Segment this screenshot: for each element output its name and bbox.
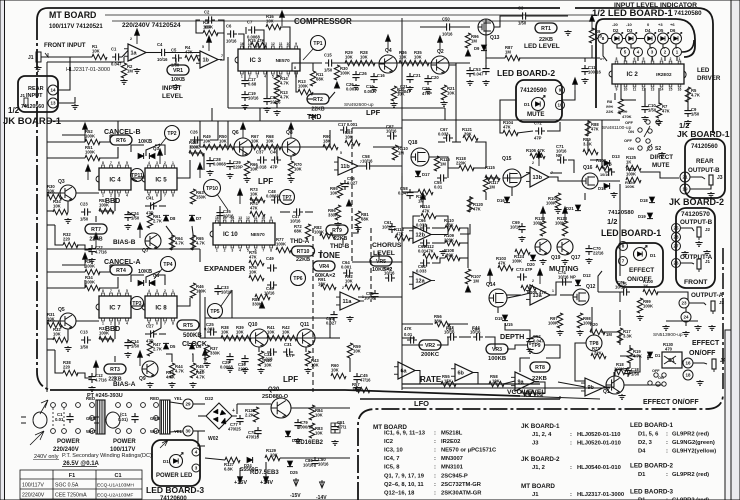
svg-text:BIAS-A: BIAS-A (113, 381, 136, 388)
svg-text:10K: 10K (360, 54, 368, 59)
wire (305, 211, 313, 213)
capacitor C22 (88, 245, 95, 255)
svg-text:1/50: 1/50 (80, 217, 89, 222)
capacitor C37 (257, 156, 267, 163)
svg-text:OFF: OFF (625, 120, 634, 125)
svg-text:10: 10 (624, 88, 628, 92)
svg-text:J2: J2 (705, 227, 711, 232)
wire (290, 156, 292, 160)
resistor R55 (441, 381, 456, 386)
svg-text:3: 3 (256, 75, 258, 79)
svg-text:2.7K: 2.7K (153, 219, 162, 224)
wire (352, 127, 402, 129)
svg-text:-10: -10 (626, 22, 633, 27)
svg-text:8: 8 (172, 194, 174, 198)
wire (205, 317, 330, 319)
capacitor C29b (226, 353, 233, 363)
svg-text:6: 6 (634, 57, 636, 61)
wire (231, 290, 233, 318)
wire (631, 44, 638, 48)
LED D1p (170, 452, 184, 467)
resistor R30b (47, 194, 62, 199)
wire (358, 165, 363, 167)
resistor R58 (489, 381, 504, 386)
wire (105, 14, 597, 16)
svg-text:10K: 10K (315, 413, 323, 418)
svg-text:10/16: 10/16 (362, 159, 373, 164)
svg-text:200KC: 200KC (421, 352, 440, 358)
ground (206, 170, 213, 175)
wire (650, 44, 652, 48)
wire (47, 210, 54, 212)
svg-text:0.01: 0.01 (55, 417, 64, 422)
resistor R99 (637, 298, 642, 313)
capacitor C26 (352, 71, 359, 81)
wire (505, 323, 530, 335)
node 2 (661, 48, 670, 57)
svg-text:10K: 10K (331, 367, 339, 372)
capacitor C4 (158, 49, 168, 56)
svg-text:S2: S2 (655, 146, 661, 152)
capacitor C23 (81, 208, 91, 215)
svg-text:470/25: 470/25 (228, 427, 241, 432)
wire (342, 238, 344, 245)
svg-text:2SK30ATM-GR: 2SK30ATM-GR (441, 490, 482, 496)
capacitor C52 (526, 335, 533, 345)
svg-text:10K: 10K (266, 138, 274, 143)
diode D5 (163, 343, 169, 349)
capacitor C1 (112, 53, 122, 60)
resistor R67 (251, 144, 266, 149)
power arrow (83, 123, 88, 138)
transistor Q17 (557, 239, 573, 255)
wire (689, 303, 706, 305)
wire (518, 396, 600, 399)
svg-text:13: 13 (651, 88, 655, 92)
IC IC10 (210, 216, 275, 253)
wire (305, 347, 307, 352)
wire (558, 382, 585, 387)
resistor R15 (251, 42, 266, 47)
node 1 (673, 48, 682, 57)
resistor R38b (63, 370, 78, 375)
capacitor C17 (241, 77, 248, 87)
wire (420, 26, 443, 28)
resistor R46 (190, 283, 195, 298)
svg-text:100K: 100K (99, 330, 109, 335)
svg-text:47P: 47P (534, 136, 542, 141)
svg-text:R15 47K: R15 47K (248, 38, 265, 43)
capacitor C74 (559, 278, 569, 285)
wire (117, 147, 119, 158)
svg-text:16: 16 (215, 216, 219, 220)
wire (640, 172, 679, 178)
capacitor C80 (311, 457, 318, 467)
wire (549, 177, 582, 181)
capacitor C73 (517, 273, 527, 280)
svg-text:10K: 10K (345, 278, 353, 283)
wire (62, 134, 85, 136)
svg-text:EFFECT: EFFECT (692, 340, 720, 347)
wire (494, 16, 519, 27)
wire (549, 282, 572, 295)
MT BOARD outline left edge (dash-dot) (37, 8, 50, 390)
node 23 (679, 298, 689, 308)
svg-text:4: 4 (148, 289, 150, 293)
resistor R84 (309, 405, 314, 420)
transistor Q10 (250, 329, 268, 347)
svg-text:6: 6 (118, 289, 120, 293)
bridge rectifier D22/W02 (201, 403, 237, 429)
potentiometer RT7 (85, 224, 107, 234)
resistor R51 (85, 155, 100, 160)
wire (622, 99, 636, 101)
svg-text::: : (570, 441, 572, 447)
power arrow (207, 36, 212, 51)
resistor R96 (465, 33, 470, 48)
svg-text:18: 18 (685, 373, 691, 378)
wire (47, 192, 60, 194)
svg-text:10K: 10K (250, 167, 258, 172)
svg-text:TP10: TP10 (206, 186, 218, 192)
svg-text:12: 12 (271, 42, 275, 46)
svg-text:0.01: 0.01 (434, 185, 443, 190)
right scanner margin (731, 0, 740, 500)
svg-text:47K: 47K (404, 326, 412, 331)
test point TP5 (208, 304, 223, 319)
svg-text:10/16: 10/16 (442, 32, 453, 37)
svg-text:J4: J4 (720, 358, 726, 364)
svg-text:9a: 9a (518, 380, 525, 386)
diode D21 (575, 205, 581, 211)
svg-text:10/16: 10/16 (384, 271, 395, 276)
svg-text:J1: J1 (20, 93, 26, 98)
ground (189, 382, 196, 387)
svg-text:220: 220 (63, 236, 71, 241)
wire (620, 356, 640, 372)
svg-text::: : (434, 490, 436, 496)
board enclosure: JK BOARD-2 (OUTPUT-B / OUTPUT-A / FRONT) (676, 208, 715, 288)
svg-text:10/16: 10/16 (382, 225, 393, 230)
ground (526, 348, 533, 353)
svg-text:IC 7: IC 7 (109, 304, 121, 311)
resistor R103 (498, 265, 513, 270)
wire (636, 38, 644, 40)
wire (211, 108, 213, 121)
wire (312, 63, 314, 71)
wire (596, 38, 598, 40)
wire (402, 176, 418, 192)
resistor R17 (617, 328, 622, 343)
svg-text:WHT: WHT (150, 429, 160, 434)
test point TP6 (291, 271, 306, 286)
parts list box outline (dash-dot) (358, 394, 723, 500)
resistor R114 (421, 213, 436, 218)
svg-text:28: 28 (673, 235, 679, 240)
svg-text:10K: 10K (203, 138, 211, 143)
svg-text:330K: 330K (210, 351, 220, 356)
capacitor C53 (466, 67, 473, 77)
wire (20, 488, 142, 490)
svg-text:4.7K: 4.7K (280, 81, 289, 86)
jack J1f (697, 259, 701, 272)
wire (663, 44, 665, 48)
svg-text:D4: D4 (638, 449, 646, 455)
wire (329, 318, 331, 338)
wire (559, 396, 561, 399)
svg-text:3.3K: 3.3K (583, 142, 592, 147)
wire (602, 120, 605, 168)
diode D15 (502, 315, 508, 321)
resistor R2 (121, 63, 126, 78)
transistor Q8 (282, 138, 300, 156)
capacitor C60 (385, 274, 395, 281)
diode D18 (649, 197, 655, 203)
wire (192, 226, 193, 250)
svg-text::: : (666, 432, 668, 438)
svg-text:0.01: 0.01 (404, 332, 413, 337)
wire (507, 294, 521, 296)
resistor R60 (331, 373, 346, 378)
svg-text:1M: 1M (398, 151, 404, 156)
svg-text:74120580: 74120580 (608, 210, 634, 216)
wire (349, 358, 351, 372)
power arrow (563, 207, 568, 222)
potentiometer VR2 (419, 340, 441, 350)
svg-text:100K: 100K (548, 321, 558, 326)
svg-text:D21: D21 (566, 206, 574, 211)
capacitor C48 (271, 196, 281, 203)
svg-text:D1: D1 (638, 472, 646, 478)
capacitor C1p2 (131, 413, 138, 423)
svg-text:21: 21 (682, 175, 688, 180)
svg-text:74120560: 74120560 (21, 104, 44, 110)
svg-text:REAR: REAR (28, 86, 44, 92)
resistor R98 (577, 313, 582, 328)
resistor R110c (445, 225, 460, 230)
wire (590, 307, 592, 332)
resistor R4 (185, 55, 200, 60)
svg-text:10K: 10K (221, 329, 229, 334)
wire (47, 248, 200, 250)
svg-text:22K: 22K (594, 351, 602, 356)
svg-text:12: 12 (246, 216, 250, 220)
svg-text:C37: C37 (256, 150, 264, 155)
wire (221, 290, 232, 306)
resistor R11 (310, 71, 315, 86)
wire (128, 340, 135, 344)
svg-text:IC 2: IC 2 (626, 71, 638, 78)
svg-text:10/16: 10/16 (318, 462, 329, 467)
wire (266, 71, 268, 95)
svg-text:VR2: VR2 (425, 343, 435, 349)
svg-text:100K: 100K (203, 24, 213, 29)
svg-text:10K: 10K (267, 329, 275, 334)
svg-text:C21: C21 (413, 73, 421, 78)
svg-text:R20: R20 (590, 322, 598, 327)
resistor R107 (465, 269, 470, 284)
wire (437, 337, 448, 345)
wire (617, 44, 625, 48)
svg-text:TP2: TP2 (167, 131, 176, 137)
resistor R82 (320, 233, 335, 238)
svg-text:YEL: YEL (174, 396, 183, 401)
diode D25 (287, 461, 293, 467)
svg-text:2SC945-P: 2SC945-P (441, 473, 468, 479)
svg-text:0.001: 0.001 (341, 265, 352, 270)
resistor R75 (249, 260, 264, 265)
wire (200, 146, 330, 148)
svg-text:12b: 12b (416, 233, 426, 239)
svg-text:C16: C16 (377, 73, 385, 78)
wire (166, 226, 172, 250)
wire (99, 338, 113, 340)
wire (46, 390, 48, 392)
wire (99, 265, 110, 272)
svg-text:FRONT: FRONT (684, 279, 708, 286)
svg-text::: : (570, 432, 572, 438)
svg-text:RT4: RT4 (116, 268, 126, 274)
power arrow (138, 223, 143, 238)
wire (250, 199, 262, 201)
wire (591, 45, 593, 58)
svg-text:C4: C4 (157, 42, 163, 47)
svg-text:3: 3 (661, 57, 663, 61)
svg-text:MT BOARD: MT BOARD (49, 10, 96, 20)
svg-text:47K: 47K (662, 109, 670, 114)
svg-text:JK BOARD-2: JK BOARD-2 (669, 197, 724, 207)
wire (330, 232, 333, 234)
svg-text:1: 1 (172, 161, 174, 165)
wire (99, 210, 113, 212)
wire (95, 470, 97, 499)
transistor Q7 (145, 233, 161, 249)
svg-text:10: 10 (286, 42, 290, 46)
svg-text:0.0068: 0.0068 (213, 162, 226, 167)
svg-text:16: 16 (678, 88, 682, 92)
wire (402, 227, 418, 229)
svg-text:3: 3 (118, 322, 120, 326)
svg-text:C1: C1 (111, 47, 117, 52)
wire (402, 323, 433, 325)
resistor R16 (266, 24, 281, 29)
resistor R76 (249, 275, 264, 280)
wire (312, 390, 314, 392)
svg-text:10/16: 10/16 (157, 57, 168, 62)
ground (64, 346, 71, 351)
svg-text:C7: C7 (247, 20, 253, 25)
resistor R110b (392, 145, 397, 160)
ground (585, 258, 592, 263)
svg-text:D19: D19 (638, 214, 646, 219)
wire (47, 338, 54, 340)
svg-text:RED: RED (86, 396, 95, 401)
capacitor C41 (147, 202, 157, 209)
wire (373, 296, 402, 298)
power arrow (198, 163, 203, 178)
resistor R48 (189, 150, 204, 155)
svg-text:10K: 10K (92, 48, 100, 53)
capacitor C69 (518, 223, 525, 233)
node 18 (683, 370, 693, 380)
svg-text:Q17: Q17 (571, 255, 581, 261)
resistor R57 (355, 387, 370, 392)
fuse table (20, 470, 142, 499)
svg-text:C27: C27 (146, 324, 154, 329)
wire (469, 196, 471, 212)
wire (117, 121, 119, 135)
resistor R89 (583, 149, 598, 154)
resistor R50 (219, 144, 234, 149)
transistor Q14 (FET) (489, 289, 507, 307)
wire (300, 62, 322, 64)
wire (204, 297, 206, 338)
wire (459, 242, 468, 244)
wire (196, 20, 203, 33)
svg-text::: : (666, 440, 668, 446)
svg-text:D1: D1 (524, 102, 530, 107)
svg-text:CEE T250mA: CEE T250mA (55, 493, 87, 499)
wire (587, 120, 589, 136)
svg-text:8: 8 (616, 57, 618, 61)
capacitor C46 (267, 281, 277, 288)
svg-text:IC 10: IC 10 (223, 231, 238, 238)
svg-text:D1: D1 (163, 459, 169, 464)
resistor R108b (445, 255, 460, 260)
node 8 (598, 34, 608, 44)
svg-text:THD-A: THD-A (290, 238, 310, 245)
wire (52, 408, 54, 428)
resistor R13 (274, 89, 279, 104)
capacitor C77 (236, 415, 243, 425)
svg-text:330K: 330K (189, 144, 199, 149)
ground (294, 438, 301, 443)
resistor R92 (345, 284, 360, 289)
svg-text:IC 5: IC 5 (155, 176, 167, 183)
capacitor C35 (216, 209, 223, 219)
wire (598, 291, 620, 293)
ground (257, 368, 264, 373)
resistor R72c (591, 353, 606, 358)
node 25 (672, 224, 681, 233)
svg-text:RT6: RT6 (116, 138, 126, 144)
wire (598, 180, 620, 182)
svg-text:10KB: 10KB (138, 269, 152, 275)
wire (46, 120, 48, 122)
power arrow (289, 123, 294, 138)
svg-text:-20: -20 (612, 22, 619, 27)
svg-text:47K: 47K (422, 209, 430, 214)
LED D5 (658, 32, 670, 44)
wire (170, 402, 183, 404)
svg-text:100K: 100K (85, 133, 95, 138)
svg-text:68K: 68K (361, 217, 369, 222)
resistor R125 (626, 165, 641, 170)
capacitor C44 (473, 333, 483, 340)
resistor R87 (505, 55, 520, 60)
svg-text:0.01): 0.01) (118, 417, 128, 422)
svg-text:VR4: VR4 (319, 264, 329, 270)
svg-text:8: 8 (102, 161, 104, 165)
svg-text:Q9: Q9 (139, 376, 146, 382)
node 28 (672, 233, 681, 242)
svg-text:29: 29 (185, 402, 191, 407)
svg-text:7: 7 (262, 249, 264, 253)
transistor Q6 (234, 138, 252, 156)
svg-text:2: 2 (110, 322, 112, 326)
ground (146, 382, 153, 387)
resistor R45 (190, 363, 195, 378)
